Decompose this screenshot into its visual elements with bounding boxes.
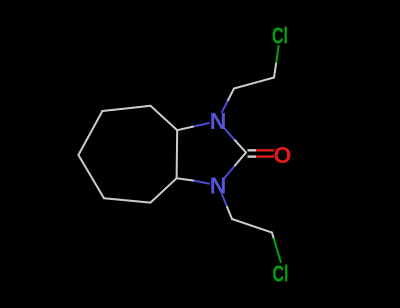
bond N1-C7a	[177, 123, 209, 130]
wire C3b-C3a	[151, 178, 177, 202]
bond N1-CH2 (upper chain)	[222, 89, 234, 113]
bond N3-CH2 (lower chain)	[222, 195, 232, 220]
bond CH2-Cl upper	[274, 46, 279, 78]
wire C7a-C7	[151, 106, 178, 130]
svg-text:N: N	[210, 173, 227, 199]
wire CH2-CH2 lower	[232, 219, 272, 233]
wire C3a-C7a fusion bond	[176, 130, 179, 178]
wire C7-C6	[102, 106, 150, 111]
svg-text:O: O	[274, 142, 292, 168]
wire C5-C4	[78, 155, 104, 198]
double bond C2=O	[248, 150, 275, 156]
wire C4-C3b	[104, 198, 151, 202]
svg-text:N: N	[210, 108, 227, 134]
bond N3-C2	[224, 153, 246, 179]
bond CH2-Cl lower	[272, 233, 281, 262]
cycloheptane ring (fused carbocycle)	[78, 106, 177, 203]
bond N3-C3a	[177, 178, 209, 183]
wire C6-C5	[78, 111, 102, 155]
bond N1-C2	[224, 128, 246, 153]
svg-text:Cl: Cl	[272, 23, 288, 49]
wire CH2-CH2 upper	[234, 78, 274, 89]
svg-text:Cl: Cl	[273, 261, 289, 287]
